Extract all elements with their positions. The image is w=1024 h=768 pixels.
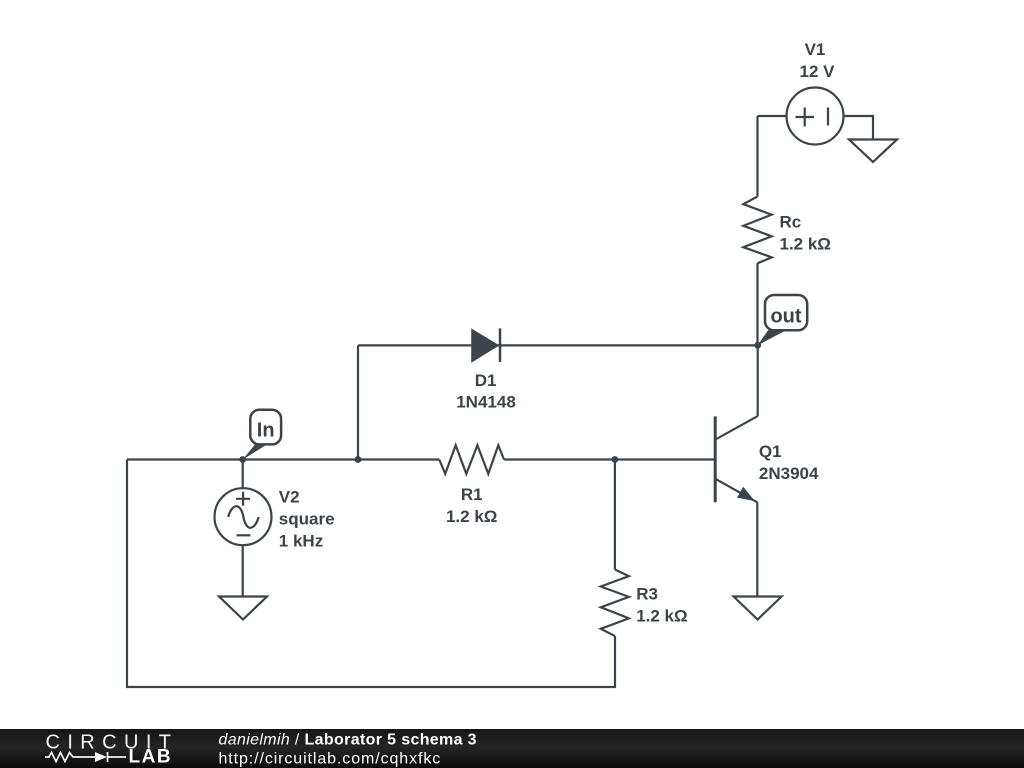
svg-text:In: In: [257, 420, 275, 442]
node In flag: [243, 410, 281, 460]
wire V1 left lead: [758, 115, 787, 117]
wire R3 to base node: [614, 460, 616, 570]
wire V2 to ground: [242, 545, 244, 596]
footer bar: [0, 729, 1024, 768]
logo resistor-diode symbol: [45, 752, 126, 762]
ground V2: [219, 597, 267, 620]
svg-text:LAB: LAB: [129, 747, 173, 768]
node dot In: [239, 456, 246, 463]
resistor Rc: [743, 197, 771, 264]
ground Q1: [734, 597, 782, 620]
svg-text:Rc: Rc: [780, 213, 802, 232]
svg-text:V2: V2: [279, 488, 300, 507]
diode D1: [472, 328, 500, 362]
wire out node to collector: [757, 345, 759, 416]
label Q1 value: [759, 442, 819, 483]
transistor Q1: [715, 416, 758, 502]
ground V1: [849, 140, 897, 163]
svg-text:R1: R1: [461, 485, 483, 504]
svg-text:1.2 kΩ: 1.2 kΩ: [780, 235, 831, 254]
svg-text:1 kHz: 1 kHz: [279, 532, 323, 551]
svg-text:2N3904: 2N3904: [759, 464, 819, 483]
svg-text:V1: V1: [805, 40, 826, 59]
wire main horizontal left part: [127, 458, 439, 460]
wire left rail and bottom rail: [127, 460, 615, 688]
svg-text:R3: R3: [636, 585, 658, 604]
voltage source V2: [215, 460, 272, 546]
node out flag: [758, 295, 808, 345]
resistor R3: [601, 570, 629, 637]
label Rc value: [780, 213, 831, 254]
svg-text:1N4148: 1N4148: [456, 393, 516, 412]
label R1 value: [446, 485, 497, 526]
resistor R1: [439, 445, 504, 474]
svg-text:1.2 kΩ: 1.2 kΩ: [446, 507, 497, 526]
label V2 value: [279, 488, 335, 551]
svg-text:danielmih / Laborator 5 schema: danielmih / Laborator 5 schema 3: [219, 731, 477, 748]
wire diode line: [358, 344, 758, 346]
wire V1 right lead to ground: [844, 116, 874, 140]
svg-text:D1: D1: [475, 371, 497, 390]
svg-text:1.2 kΩ: 1.2 kΩ: [636, 607, 687, 626]
label D1 value: [456, 371, 516, 412]
wire R1 to base: [504, 458, 715, 460]
wire emitter to ground: [756, 502, 758, 596]
svg-text:out: out: [770, 306, 801, 328]
label V1 value: [800, 40, 836, 81]
node dot diode drop: [355, 456, 362, 463]
svg-text:12 V: 12 V: [800, 62, 836, 81]
node dot out: [754, 342, 761, 349]
node dot base: [612, 456, 619, 463]
wire Rc to out node: [756, 263, 758, 345]
voltage source V1: [787, 88, 844, 145]
label R3 value: [636, 585, 687, 626]
svg-text:Q1: Q1: [759, 442, 782, 461]
wire left drop from diode: [357, 345, 359, 459]
svg-text:square: square: [279, 510, 335, 529]
wire V1 to Rc: [756, 116, 758, 197]
svg-text:http://circuitlab.com/cqhxfkc: http://circuitlab.com/cqhxfkc: [219, 751, 442, 768]
